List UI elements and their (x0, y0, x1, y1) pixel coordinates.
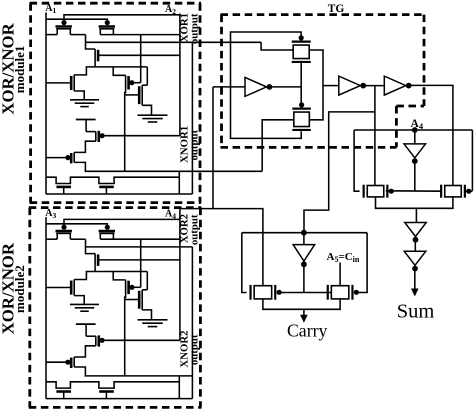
wire N2 top stub (142, 84, 147, 86)
wire XOR node step-down (86, 35, 96, 49)
transistor P3 module2 (PMOS mid, dot right) (125, 280, 127, 295)
wire P3 drain down to XNOR rail (124, 295, 127, 376)
wire N3 top to XOR node (74, 67, 95, 75)
transistor P2 module1 (top-right PMOS) (99, 25, 115, 28)
transistor N2 module2 (NMOS, gate left) (141, 290, 143, 310)
transistor N2 module1 (NMOS, gate left) (141, 85, 143, 105)
ground module1 left (70, 99, 99, 101)
svg-text:output: output (188, 214, 200, 245)
wire XOR1 into TG pass gate 1 (261, 42, 293, 50)
wire A4 rail (354, 129, 472, 131)
bottom wall / gate link (46, 193, 192, 195)
wire ('A', '3') left wall (45, 217, 47, 399)
bottom NMOS pair rail (46, 382, 179, 388)
wire Sum gate link (386, 190, 441, 192)
node Carry control junction (301, 230, 307, 236)
transistor P4 module2 (PMOS, dot right, gate from ('A', '4')) (95, 336, 97, 346)
Sum output arrow (414, 270, 416, 291)
transmission gate TG1 (293, 45, 309, 59)
ground module2 right (138, 319, 168, 321)
transistor P5 module2 (PMOS, dot left, gate from ('A', '3')) (73, 357, 75, 367)
inverter U6 (Sum, down) (414, 240, 416, 251)
wire U7 out down (303, 264, 305, 292)
svg-text:Sum: Sum (397, 301, 435, 323)
wire right wall (191, 247, 193, 399)
Carry output arrow (303, 309, 305, 317)
wire rail left end down (242, 233, 247, 293)
pass gate C2 (Carry right) (331, 286, 349, 299)
wire Carry pass outputs rail (263, 299, 340, 309)
wire source/drain rail under PMOS pair (46, 238, 57, 240)
transistor N3 module1 (gate from ('A', '1')) (73, 75, 75, 91)
XOR/XNOR module1 dashed border (30, 2, 201, 5)
wire XNOR1 output rail (74, 162, 85, 171)
wire N2 source to ground (142, 105, 151, 115)
svg-text:TG: TG (328, 3, 345, 15)
wire N3 top to XOR node (74, 272, 95, 280)
transistor N4 module1 (bottom-left NMOS) (56, 186, 71, 189)
transistor N5 module2 (bottom-right NMOS) (99, 390, 114, 393)
bottom NMOS pair rail (46, 177, 179, 183)
wire P4 drain to P5 (74, 141, 96, 152)
PMOS gate dot (105, 225, 110, 230)
svg-text:output: output (188, 13, 200, 44)
PMOS gate dot (61, 225, 66, 230)
wire N1 drain down (94, 61, 96, 67)
TG dashed border (notched) (221, 13, 426, 16)
wire Cin down to pass gate (339, 263, 341, 286)
svg-text:module2: module2 (12, 265, 27, 313)
wire P3 drain down to XNOR rail (124, 90, 127, 171)
wire P4 drain to P5 (74, 346, 96, 357)
wire ('A', '2') vertical (179, 14, 181, 136)
ground module1 right (138, 114, 168, 116)
wire XNOR2 output rail (74, 367, 85, 376)
wire N2 gate lead from P3 drain (125, 299, 140, 301)
inverter U3 (364, 85, 384, 87)
wire TG1 bottom gate / inverter output / TG2 top dot (300, 62, 302, 108)
wire right wall (191, 42, 193, 194)
transistor P1 module2 (top-left PMOS) (56, 230, 72, 233)
wire TG1 right + TG2 right to output node (309, 50, 323, 120)
transistor P4 module1 (PMOS, dot right, gate from ('A', '2')) (95, 132, 97, 142)
svg-text:output: output (188, 334, 200, 365)
wire N3 source to ground (74, 296, 84, 305)
wire N3 source to ground (74, 91, 84, 100)
inverter U7 (Carry, down) (303, 233, 305, 245)
wire XOR1 output line (86, 41, 262, 43)
wire to P3 source (113, 272, 125, 280)
transistor N3 module2 (gate from ('A', '3')) (73, 280, 75, 296)
transistor N1 module2 (NMOS, gate from ('A', '4')) (94, 254, 96, 266)
transmission gate TG2 (294, 112, 310, 127)
ground module2 left (70, 303, 99, 305)
wire N1 drain down (94, 265, 96, 271)
inverter U4 (A4, pointing down) (414, 130, 416, 144)
wire to P3 source (113, 67, 125, 75)
transistor P1 module1 (top-left PMOS) (56, 25, 72, 28)
wire TG control rail (231, 32, 302, 138)
wire N2 source to ground (142, 310, 151, 320)
wire U2 output down to Sum left pass gate (374, 86, 376, 186)
wire from drain rail down to P3 gate (140, 239, 142, 287)
PMOS gate dot (61, 20, 66, 25)
wire U3 output to Sum pass gate (410, 85, 453, 185)
wire from drain rail down to P3 gate (140, 35, 142, 83)
transistor N1 module1 (NMOS, gate from ('A', '2')) (94, 49, 96, 61)
pass gate C1 (Carry left) (254, 286, 272, 299)
node A4 (412, 127, 418, 133)
wire Carry gate link (278, 292, 332, 294)
VDD bar for P4 (76, 119, 96, 121)
transistor P5 module1 (PMOS, dot left, gate from ('A', '1')) (73, 152, 75, 162)
wire N2 top stub (142, 289, 147, 291)
wire top rail to PMOS gates (crossed) (64, 15, 180, 22)
XOR/XNOR module2 dashed border (29, 206, 202, 209)
wire control tap to Carry (304, 112, 375, 233)
svg-text:Carry: Carry (287, 321, 328, 341)
inverter U5 (Sum, down) (405, 223, 427, 237)
wire source/drain rail under PMOS pair (46, 34, 57, 36)
inverter U1 (TG) (213, 86, 245, 88)
wire Sum pass outputs rail (376, 197, 453, 208)
transistor P3 module1 (PMOS mid, dot right) (125, 75, 127, 90)
svg-text:output: output (188, 129, 200, 160)
wire U4 output down (414, 164, 416, 191)
transistor N4 module2 (bottom-left NMOS) (56, 390, 71, 393)
wire top rail to PMOS gates (crossed) (64, 219, 180, 226)
wire Carry control rail (242, 232, 367, 234)
wire XOR node step-down (86, 239, 96, 253)
transistor N5 module1 (bottom-right NMOS) (99, 186, 114, 189)
pass gate S1 (Sum left) (367, 186, 384, 197)
bottom wall / gate link (46, 398, 192, 400)
wire TG control from XOR2 (vertical x=213) (212, 87, 214, 209)
inverter U2 (323, 85, 339, 87)
wire A4/XOR2 line to Carry pass gate (180, 209, 263, 286)
wire TG2 left from XNOR1 (262, 120, 294, 172)
wire XOR2 output line (86, 246, 193, 248)
transistor P2 module2 (top-right PMOS) (99, 230, 115, 233)
wire A4 rail left end down to NMOS gate (354, 130, 360, 191)
wire step under XNOR rail (178, 171, 180, 194)
wire A4 rail right end down to PMOS gate (471, 130, 473, 191)
PMOS gate dot (105, 20, 110, 25)
wire ('A', '4') vertical (179, 209, 181, 341)
wire ('A', '1') left wall (45, 13, 47, 195)
wire step under XNOR rail (178, 376, 180, 399)
wire rail right end down (359, 233, 368, 293)
wire N2 gate lead from P3 drain (125, 94, 140, 96)
VDD bar for P4 (76, 323, 96, 325)
svg-text:module1: module1 (12, 46, 27, 94)
pass gate S2 (Sum right) (445, 186, 462, 197)
